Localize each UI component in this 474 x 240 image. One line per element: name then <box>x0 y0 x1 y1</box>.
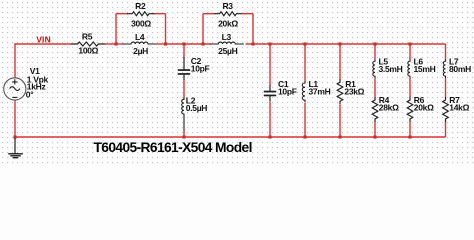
svg-text:10pF: 10pF <box>191 64 210 74</box>
voltage source V1 circle <box>4 78 26 100</box>
inductor L6 <box>408 59 410 78</box>
voltage source V1 minus sign <box>12 96 17 98</box>
junction top line x=305 <box>303 42 306 45</box>
wire R2 loop top right <box>153 13 165 15</box>
svg-text:L4: L4 <box>135 32 145 42</box>
junction top line x=203 <box>201 42 204 45</box>
wire R3 loop top right <box>241 13 253 15</box>
wire R3 loop top left <box>203 13 215 15</box>
resistor R4 <box>372 97 378 122</box>
svg-text:R3: R3 <box>222 1 233 11</box>
svg-text:T60405-R6161-X504 Model: T60405-R6161-X504 Model <box>94 140 252 155</box>
junction bottom bus x=340 <box>338 135 341 138</box>
junction top line x=340 <box>338 42 341 45</box>
wire main top line stub at node B <box>157 43 166 45</box>
junction bottom bus x=15 <box>13 135 16 138</box>
wire R2 loop right vertical <box>165 14 167 44</box>
svg-text:14kΩ: 14kΩ <box>449 103 469 113</box>
wire L1 branch top <box>304 44 306 82</box>
wire R3 loop right vertical <box>252 14 254 44</box>
junction bottom bus x=305 <box>303 135 306 138</box>
wire R7 to bus <box>445 122 447 138</box>
wire C2 branch top <box>183 44 185 58</box>
wire C1 to bus <box>269 102 271 137</box>
junction bottom bus x=184 <box>182 135 185 138</box>
inductor L3 <box>210 42 244 44</box>
svg-text:300Ω: 300Ω <box>131 19 151 29</box>
inductor L7 <box>443 59 445 78</box>
inductor L4 <box>123 42 157 44</box>
wire L1 to bus <box>304 103 306 138</box>
wire L6 to R6 <box>409 78 411 98</box>
wire L7 to R7 <box>445 78 447 98</box>
resistor R1 <box>337 79 343 104</box>
wire C2 to L2 <box>183 80 185 98</box>
wire R3 loop left vertical <box>202 14 204 44</box>
voltage source V1 plus sign <box>12 79 17 84</box>
wire main top line segment V1 to R5 <box>14 43 71 45</box>
ground symbol <box>14 138 16 154</box>
resistor R5 <box>71 42 105 46</box>
wire R1 to bus <box>339 105 341 138</box>
svg-text:23kΩ: 23kΩ <box>344 87 364 97</box>
inductor L1 <box>302 81 305 102</box>
junction top line x=116 <box>114 42 117 45</box>
voltage source V1 sine wave <box>10 87 20 91</box>
junction top line x=375 <box>373 42 376 45</box>
svg-text:28kΩ: 28kΩ <box>379 103 399 113</box>
wire main top line segment R5 to node A <box>105 43 117 45</box>
junction top line x=270 <box>268 42 271 45</box>
wire bottom bus <box>14 136 445 138</box>
junction top line x=410 <box>408 42 411 45</box>
wire main top line segment node D to right end <box>246 43 446 45</box>
junction bottom bus x=270 <box>268 135 271 138</box>
wire R4 to bus <box>374 122 376 138</box>
svg-text:10pF: 10pF <box>278 86 297 96</box>
resistor R7 <box>443 97 449 122</box>
svg-text:0.5µH: 0.5µH <box>186 103 208 113</box>
wire R2 loop left vertical <box>115 14 117 44</box>
svg-text:VIN: VIN <box>36 34 51 44</box>
wire L5 to R4 <box>374 78 376 98</box>
wire R6 to bus <box>409 122 411 138</box>
inductor L5 <box>373 59 375 78</box>
junction top line x=253 <box>251 42 254 45</box>
capacitor C2 <box>183 57 185 70</box>
junction bottom bus x=375 <box>373 135 376 138</box>
wire VIN net: V1 top to main line corner <box>14 44 16 78</box>
wire R1 branch top <box>339 44 341 80</box>
junction top line x=165.5 <box>164 42 167 45</box>
resistor R6 <box>407 97 413 122</box>
svg-text:R2: R2 <box>135 1 146 11</box>
capacitor C1 <box>269 85 271 91</box>
svg-text:37mH: 37mH <box>309 86 331 96</box>
wire C1 branch top <box>269 44 271 86</box>
svg-text:3.5mH: 3.5mH <box>379 64 403 74</box>
svg-text:20kΩ: 20kΩ <box>414 103 434 113</box>
wire L5 branch top <box>374 44 376 60</box>
wire main top line segment node B to node C <box>166 43 212 45</box>
wire L7 branch top <box>445 44 447 60</box>
resistor R2 <box>127 12 154 16</box>
svg-text:0°: 0° <box>26 89 34 99</box>
wire V1 bottom to bus <box>14 100 16 137</box>
junction top line x=184 <box>182 42 185 45</box>
wire R2 loop top left <box>116 13 128 15</box>
resistor R3 <box>214 12 241 16</box>
svg-text:100Ω: 100Ω <box>78 46 98 56</box>
wire L2 to bus <box>183 130 185 137</box>
svg-text:15mH: 15mH <box>414 64 436 74</box>
junction bottom bus x=410 <box>408 135 411 138</box>
svg-text:R5: R5 <box>82 31 93 41</box>
svg-text:20kΩ: 20kΩ <box>218 19 238 29</box>
svg-text:25µH: 25µH <box>218 46 237 56</box>
inductor L2 <box>182 98 184 131</box>
svg-text:2µH: 2µH <box>133 46 148 56</box>
wire L6 branch top <box>409 44 411 60</box>
wire main top line stub at node A <box>116 43 124 45</box>
svg-text:80mH: 80mH <box>449 64 471 74</box>
svg-text:L3: L3 <box>222 32 232 42</box>
